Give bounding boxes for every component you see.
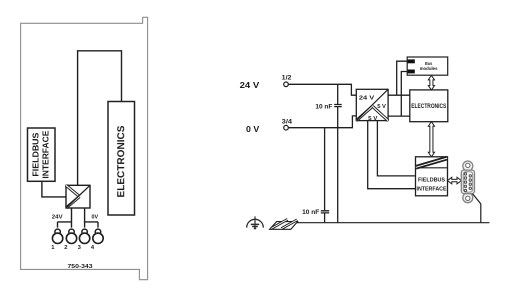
terminal 3 (device) [79, 229, 89, 243]
svg-text:3/4: 3/4 [282, 119, 293, 126]
terminal 1 (device) [52, 229, 62, 243]
svg-text:1: 1 [51, 245, 55, 251]
capacitor C2 10 nF (0V to shield rail) [302, 128, 329, 223]
svg-text:FIELDBUS: FIELDBUS [418, 178, 445, 184]
terminal 4 (device) [93, 229, 103, 243]
terminal 2 (device) [66, 229, 76, 243]
wire: 0V feed to DC/DC [288, 116, 356, 128]
wire: 5V to FIELDBUS upper [377, 121, 415, 176]
svg-text:24V: 24V [52, 214, 64, 220]
svg-text:10 nF: 10 nF [315, 103, 332, 110]
wire: FIELDBUS INTERFACE to DC/DC (device) [42, 181, 66, 197]
svg-text:24 V: 24 V [359, 96, 374, 102]
svg-text:0 V: 0 V [246, 124, 260, 134]
wire: tap to Bus modules lower pin [401, 72, 407, 117]
svg-text:2: 2 [64, 245, 67, 251]
ELECTRONICS box (device) [108, 102, 135, 216]
device outline 750-343 coupler [21, 17, 148, 279]
ELECTRONICS box (diagram) [410, 90, 448, 122]
wire: DC/DC top to ELECTRONICS top (device) [78, 51, 122, 186]
label 0V (device) [92, 215, 99, 221]
DC/DC converter U1 (diagram) [356, 89, 388, 122]
FIELDBUS INTERFACE box (diagram) [416, 157, 448, 196]
arrow: Bus modules to ELECTRONICS [428, 75, 434, 90]
D-sub connector J1 [461, 161, 474, 203]
svg-text:5 V: 5 V [377, 104, 386, 110]
FIELDBUS INTERFACE box (device) [28, 128, 56, 181]
svg-text:3: 3 [78, 245, 82, 251]
functional earth symbol [247, 216, 264, 228]
svg-text:ELECTRONICS: ELECTRONICS [411, 103, 446, 110]
label 24 V (diagram) [240, 80, 260, 90]
wire: 5V lower to ELECTRONICS [388, 115, 410, 117]
svg-text:4: 4 [91, 245, 95, 251]
wire: 5V upper to ELECTRONICS [388, 94, 410, 96]
shield clamp symbol [270, 219, 298, 229]
svg-text:0V: 0V [92, 215, 99, 221]
terminal 1/2 [282, 75, 292, 87]
svg-text:FIELDBUS: FIELDBUS [31, 132, 41, 176]
terminal 3/4 [282, 119, 293, 130]
shield rail (bottom) [291, 222, 489, 224]
wire: 24V feed to DC/DC [288, 84, 356, 95]
svg-text:1/2: 1/2 [282, 75, 292, 82]
wire: tap to Bus modules upper pin [397, 61, 408, 95]
svg-text:24 V: 24 V [240, 80, 260, 90]
label 750-343 [68, 264, 93, 270]
label 24V (device) [52, 214, 64, 220]
capacitor C1 10 nF (24V to shield rail) [315, 84, 341, 222]
svg-text:INTERFACE: INTERFACE [417, 187, 447, 193]
arrow: FIELDBUS INTERFACE to D-sub [447, 177, 461, 184]
svg-text:750-343: 750-343 [68, 264, 93, 270]
wire: 5V to FIELDBUS lower [368, 121, 416, 189]
svg-text:5 V: 5 V [368, 116, 377, 122]
svg-text:Bus: Bus [425, 61, 432, 67]
pin numbers 1 2 3 4 [51, 245, 95, 251]
svg-text:10 nF: 10 nF [302, 209, 319, 216]
wire: D-sub shell to shield rail [473, 194, 481, 223]
label 0 V (diagram) [246, 124, 260, 134]
svg-text:ELECTRONICS: ELECTRONICS [116, 125, 127, 197]
arrow: ELECTRONICS to FIELDBUS INTERFACE [428, 122, 434, 157]
DC/DC converter symbol (device) [66, 185, 90, 208]
svg-text:INTERFACE: INTERFACE [41, 130, 51, 178]
Bus modules box [407, 57, 448, 75]
svg-text:modules: modules [420, 66, 438, 72]
wires: DC/DC to terminals 1-4 (device) [58, 208, 99, 228]
